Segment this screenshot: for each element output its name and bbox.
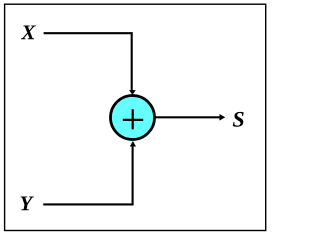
wire from X (horizontal then down) — [44, 33, 132, 90]
node S — [233, 112, 244, 127]
plus sign — [123, 109, 143, 129]
arrowhead into adder bottom — [130, 141, 136, 147]
arrowhead to S — [220, 114, 226, 121]
wire from Y (horizontal then up) — [43, 146, 132, 204]
node X — [21, 25, 36, 39]
node Y — [21, 196, 34, 210]
wire from adder to S — [156, 116, 221, 118]
arrowhead into adder top — [129, 90, 136, 95]
summing junction circle — [111, 96, 155, 140]
